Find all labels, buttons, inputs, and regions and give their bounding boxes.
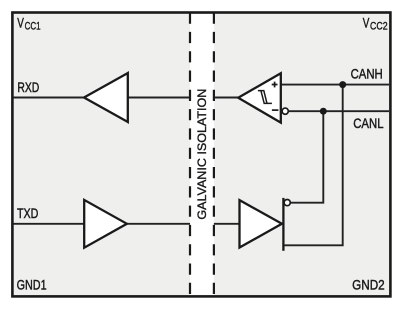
junction CANL xyxy=(320,108,327,115)
wire driver high output to CANH riser xyxy=(285,85,343,246)
wire RXD left segment xyxy=(14,97,86,99)
svg-text:RXD: RXD xyxy=(17,79,39,95)
svg-text:GND2: GND2 xyxy=(352,277,385,293)
svg-text:CANL: CANL xyxy=(353,115,384,131)
wire TXD buffer to left dashed line xyxy=(127,223,190,225)
RXD buffer (triangle pointing left) xyxy=(84,73,128,122)
hysteresis symbol xyxy=(258,91,272,104)
wire right dashed line to driver input xyxy=(214,223,240,225)
driver inverting output bubble xyxy=(284,200,290,206)
wire RXD buffer to left dashed line xyxy=(128,97,190,99)
comparator inverting input bubble xyxy=(282,108,288,114)
dashed line right xyxy=(213,13,215,295)
wire CANL net xyxy=(289,110,389,112)
svg-text:V: V xyxy=(17,15,24,31)
wire CANH net xyxy=(281,84,389,86)
svg-text:GALVANIC ISOLATION: GALVANIC ISOLATION xyxy=(195,89,209,220)
svg-text:CANH: CANH xyxy=(351,65,383,81)
svg-text:GND1: GND1 xyxy=(17,277,47,293)
comparator plus sign xyxy=(272,82,278,88)
wire driver low output (bubble) to CANL riser xyxy=(291,111,323,203)
comparator U-RX (triangle pointing left) xyxy=(238,73,281,122)
svg-text:CC1: CC1 xyxy=(25,21,41,33)
svg-text:V: V xyxy=(363,15,370,31)
TXD buffer (triangle pointing right) xyxy=(84,200,127,248)
driver U-TX (triangle pointing right) xyxy=(240,200,282,247)
isolation strip (white gap) xyxy=(190,14,214,295)
junction CANH xyxy=(339,81,346,88)
wire TXD left segment xyxy=(14,223,85,225)
driver output bar xyxy=(282,198,284,251)
dashed line left xyxy=(189,13,191,295)
svg-text:CC2: CC2 xyxy=(370,21,388,33)
wire right dashed line to comparator output xyxy=(214,97,239,99)
svg-text:TXD: TXD xyxy=(17,205,38,221)
comparator minus sign xyxy=(272,109,279,111)
